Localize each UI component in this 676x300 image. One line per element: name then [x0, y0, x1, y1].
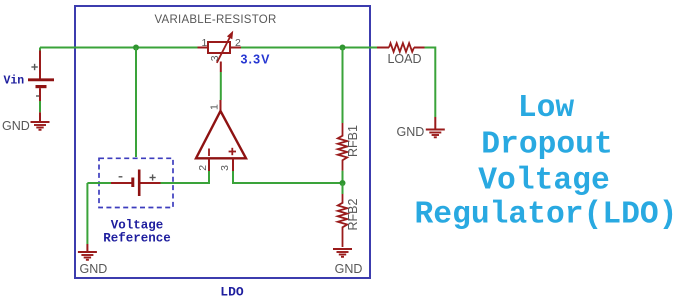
- svg-text:LOAD: LOAD: [387, 52, 421, 66]
- wire: op-amp pin 2 stub: [208, 158, 210, 171]
- wire: reference battery right lead: [141, 182, 161, 184]
- svg-text:2: 2: [197, 165, 209, 171]
- variable resistor RV1 wiper arrow: [217, 31, 233, 63]
- voltage reference box (dashed): [99, 158, 173, 207]
- title: Low Dropout Voltage Regulator(LDO): [415, 91, 676, 232]
- resistor LOAD leads: [377, 47, 389, 49]
- ground: Vin ground symbol: [31, 122, 50, 130]
- svg-text:Reference: Reference: [103, 231, 171, 245]
- svg-text:GND: GND: [397, 125, 425, 139]
- svg-text:Vin: Vin: [4, 75, 25, 88]
- wire: Vin battery bottom lead to ground: [39, 88, 41, 101]
- wire: RV1 wiper to op-amp input: [220, 62, 222, 73]
- svg-text:LDO: LDO: [220, 285, 244, 300]
- wire: feedback node down to RFB2: [342, 183, 344, 194]
- wire: LOAD to ground: [425, 48, 436, 118]
- ground: LOAD ground symbol: [426, 130, 445, 138]
- svg-text:1: 1: [209, 104, 221, 110]
- wire: reference net left of battery: [87, 182, 111, 184]
- ground: RFB2 ground symbol: [333, 249, 352, 257]
- svg-text:3: 3: [209, 55, 221, 61]
- svg-text:RFB1: RFB1: [346, 125, 360, 157]
- battery BT1 Vin plus plate: [28, 78, 54, 81]
- ground: reference ground symbol: [78, 252, 97, 260]
- wire: junction down to voltage reference box: [135, 48, 137, 158]
- op-amp U1 plus mark: [229, 148, 236, 155]
- svg-text:Low: Low: [518, 91, 575, 126]
- battery BT2 reference minus plate: [131, 178, 134, 188]
- op-amp U1 body: [196, 111, 246, 158]
- svg-text:VARIABLE-RESISTOR: VARIABLE-RESISTOR: [154, 14, 276, 26]
- label - for Vin battery: [36, 95, 40, 97]
- svg-text:Voltage: Voltage: [478, 164, 609, 199]
- svg-text:1: 1: [202, 37, 208, 49]
- wire: op-amp pin 3 stub: [232, 158, 234, 171]
- svg-text:3: 3: [219, 165, 231, 171]
- resistor LOAD body: [389, 43, 414, 52]
- node B: junction at feedback divider top: [340, 45, 346, 51]
- svg-text:Regulator(LDO): Regulator(LDO): [415, 197, 676, 232]
- wire: RFB1 to feedback node: [342, 171, 344, 183]
- variable resistor RV1 left lead: [198, 47, 209, 49]
- wire: reference net to op-amp pin 2: [161, 182, 210, 184]
- variable resistor RV1 right lead: [230, 47, 241, 49]
- label - for reference battery: [119, 176, 123, 178]
- wire: reference net down to ground: [86, 183, 88, 244]
- svg-text:Dropout: Dropout: [481, 127, 612, 162]
- LDO block outline: [75, 6, 370, 278]
- wire: Vin battery top lead: [39, 48, 41, 52]
- svg-text:GND: GND: [2, 119, 30, 133]
- label + for reference battery: [150, 174, 156, 180]
- node C: feedback divider junction: [340, 180, 346, 186]
- svg-text:GND: GND: [335, 262, 363, 276]
- wire: op-amp pin 2 down to reference net: [208, 171, 210, 184]
- label + for Vin battery: [31, 64, 37, 70]
- svg-text:3.3V: 3.3V: [241, 53, 271, 67]
- svg-text:GND: GND: [80, 262, 108, 276]
- wire: main 3.3V rail from Vin to LOAD: [40, 47, 377, 49]
- node A: junction at voltage-reference tap: [133, 45, 139, 51]
- svg-text:RFB2: RFB2: [346, 199, 360, 231]
- variable resistor RV1 body: [208, 42, 230, 53]
- wire: rail down to RFB1: [342, 48, 344, 124]
- battery BT2 reference plus plate: [138, 170, 141, 197]
- battery BT1 Vin minus plate: [36, 85, 47, 88]
- wire: op-amp pin 3 down to feedback net: [233, 171, 343, 183]
- label Voltage Reference: [103, 218, 171, 245]
- svg-text:2: 2: [235, 37, 241, 49]
- resistor RFB1: [338, 123, 347, 171]
- resistor RFB2: [338, 194, 347, 247]
- op-amp U1 minus mark: [208, 149, 210, 157]
- svg-text:Voltage: Voltage: [111, 218, 164, 232]
